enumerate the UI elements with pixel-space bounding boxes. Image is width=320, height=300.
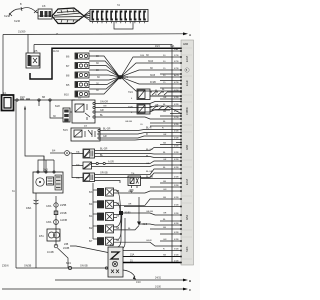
svg-text:4/2B: 4/2B	[174, 159, 179, 161]
svg-text:4/2B: 4/2B	[174, 97, 179, 99]
svg-text:4/2B: 4/2B	[174, 223, 179, 225]
wire diagonal into cluster	[70, 246, 108, 253]
relay pair 8/1	[89, 213, 114, 221]
svg-text:BL-GR: BL-GR	[146, 149, 153, 151]
svg-text:BL-R: BL-R	[146, 127, 152, 130]
svg-text:GR: GR	[155, 105, 159, 107]
svg-text:GN-R: GN-R	[146, 240, 152, 242]
thick feed bus 30	[30, 48, 181, 79]
wire bottom feed 31/269 to cluster	[2, 262, 108, 270]
relay pair 8/7b	[89, 237, 114, 245]
svg-text:4/7B: 4/7B	[174, 68, 179, 70]
cable marker 4/BA	[26, 193, 39, 268]
svg-text:4/52: 4/52	[185, 214, 189, 220]
svg-text:30-R: 30-R	[148, 60, 153, 63]
connector 6/28	[53, 105, 70, 122]
relay pair 8/3	[89, 188, 114, 196]
svg-text:GN-OR: GN-OR	[100, 101, 108, 104]
svg-text:GR: GR	[128, 204, 132, 206]
svg-text:30-B: 30-B	[150, 74, 155, 77]
wire mid label column	[162, 55, 167, 257]
wire 7/9 outputs with connectors	[92, 161, 182, 167]
svg-text:4/2B: 4/2B	[174, 124, 179, 126]
wire strip pin pips	[180, 48, 182, 264]
relay 7/9	[76, 162, 92, 169]
svg-text:GR: GR	[163, 97, 167, 99]
svg-text:GR: GR	[163, 134, 167, 136]
svg-text:4/BA: 4/BA	[26, 207, 32, 210]
svg-text:30A: 30A	[174, 48, 178, 51]
svg-text:6B/1: 6B/1	[66, 262, 72, 265]
harness bundle 8A	[38, 8, 84, 24]
svg-text:GN/3B: GN/3B	[24, 265, 32, 268]
svg-text:GR-SB: GR-SB	[125, 121, 132, 123]
svg-text:4/2B: 4/2B	[174, 232, 179, 234]
svg-text:5/2B: 5/2B	[174, 249, 179, 251]
cluster 5/1	[105, 244, 123, 277]
svg-text:J/100: J/100	[155, 286, 162, 289]
wire U-bracket under connector row	[114, 22, 133, 29]
svg-text:J/10: J/10	[136, 281, 141, 284]
fuse 8/10	[64, 91, 89, 97]
svg-text:4/2B: 4/2B	[174, 138, 179, 140]
svg-text:4/2B: 4/2B	[174, 167, 179, 169]
pump unit 3/43	[33, 169, 63, 194]
wire to A / node 31/269	[3, 31, 192, 38]
svg-text:ECM: ECM	[185, 179, 189, 185]
svg-text:8/10: 8/10	[64, 94, 69, 97]
svg-text:30A: 30A	[170, 45, 175, 48]
box 7/4	[128, 173, 181, 193]
svg-text:R-SB: R-SB	[150, 81, 156, 84]
connector row 7/A	[90, 4, 148, 23]
wire relay outputs to junction	[114, 190, 122, 239]
wire cluster outputs	[123, 251, 181, 285]
svg-text:A1/NB: A1/NB	[60, 219, 67, 222]
svg-text:6B: 6B	[42, 96, 45, 99]
svg-text:4/2B: 4/2B	[174, 255, 179, 257]
connector strip panel	[181, 40, 194, 265]
wire connector drop to 6/28	[50, 100, 63, 118]
svg-text:GN: GN	[128, 191, 132, 193]
svg-text:5/15: 5/15	[63, 129, 68, 132]
svg-text:6/28: 6/28	[55, 105, 60, 108]
svg-text:SB: SB	[116, 202, 120, 205]
ground strap 31/48 arcs	[4, 3, 37, 23]
sensor chain circles	[46, 196, 67, 246]
svg-text:EGR: EGR	[185, 80, 189, 86]
svg-text:Z30/N: Z30/N	[2, 265, 9, 268]
wire left drop from A-line	[2, 35, 4, 96]
fan wires from bundle to connector row	[84, 11, 90, 21]
svg-text:GR: GR	[163, 213, 167, 215]
svg-text:4/2B: 4/2B	[174, 261, 179, 263]
fuse 8/7	[66, 63, 89, 69]
svg-text:7A: 7A	[117, 4, 120, 7]
svg-text:4/2B: 4/2B	[174, 104, 179, 106]
svg-text:GR: GR	[163, 159, 167, 161]
relay 7/8	[76, 149, 95, 158]
wire knot fan to right rows	[122, 57, 182, 91]
svg-text:A/7B: A/7B	[174, 74, 179, 77]
svg-text:16/2: 16/2	[20, 96, 25, 99]
svg-text:A GR: A GR	[108, 161, 114, 164]
connector 7/8	[36, 5, 52, 19]
svg-text:4/2B: 4/2B	[174, 131, 179, 133]
svg-text:BL-SB: BL-SB	[146, 176, 153, 179]
svg-text:GN-SB: GN-SB	[80, 265, 88, 268]
wire battery ground drop	[15, 100, 17, 268]
wire pump pins up	[38, 156, 54, 171]
junction 31/53	[119, 211, 131, 215]
relay 5/15	[63, 125, 100, 141]
wire relay outputs to right	[114, 190, 182, 246]
svg-text:5/7B: 5/7B	[174, 117, 179, 119]
svg-text:GN: GN	[163, 189, 167, 191]
svg-text:6/7B: 6/7B	[174, 61, 179, 63]
svg-text:GR: GR	[146, 163, 150, 165]
wire speckle labels mid columns	[103, 55, 159, 242]
svg-text:4/96: 4/96	[183, 42, 189, 46]
svg-text:CMBD: CMBD	[185, 107, 189, 115]
fuse 8/8	[66, 72, 89, 78]
wire B line	[55, 277, 192, 284]
switch unit 7/25	[128, 104, 181, 114]
svg-text:7/24: 7/24	[128, 91, 133, 94]
svg-text:5/2B: 5/2B	[174, 152, 179, 154]
svg-text:GN: GN	[163, 239, 167, 241]
svg-text:31/269: 31/269	[18, 31, 26, 34]
svg-text:BL-SB: BL-SB	[146, 171, 153, 173]
svg-text:7/25: 7/25	[128, 106, 133, 109]
svg-text:SB: SB	[116, 215, 120, 218]
svg-text:4/51: 4/51	[39, 235, 44, 238]
wire inner box top	[34, 45, 172, 263]
wire C line	[2, 286, 192, 293]
svg-text:2/18B: 2/18B	[63, 247, 70, 250]
ground circle 6/46	[50, 150, 72, 156]
svg-text:5/2B: 5/2B	[174, 90, 179, 92]
fuse 8/5	[66, 82, 89, 88]
svg-text:SRS: SRS	[185, 246, 189, 252]
battery 1/1	[2, 92, 14, 111]
svg-text:4/2B: 4/2B	[174, 205, 179, 207]
svg-text:C/8A: C/8A	[46, 205, 52, 208]
svg-text:31/5: 31/5	[143, 223, 148, 226]
svg-text:4/2B: 4/2B	[174, 177, 179, 179]
svg-text:BL-GR: BL-GR	[100, 148, 108, 151]
relay 7/7	[70, 97, 95, 123]
svg-text:C/8A: C/8A	[46, 221, 52, 224]
wire 7/6 outputs	[95, 169, 182, 183]
svg-text:4/2B: 4/2B	[174, 146, 179, 148]
bundle knot D/Y1	[118, 75, 128, 79]
wire riser with arrow	[24, 106, 44, 173]
svg-text:4/2B: 4/2B	[174, 197, 179, 199]
svg-text:SB: SB	[116, 239, 120, 242]
relay pair 8/4	[89, 200, 114, 208]
svg-text:16/4: 16/4	[155, 45, 160, 48]
junction 31/5 triangle	[137, 197, 148, 226]
svg-text:4/7B: 4/7B	[174, 82, 179, 84]
wire relay column left bus	[92, 183, 94, 239]
svg-text:4/7B: 4/7B	[174, 111, 179, 113]
svg-text:BL-GR: BL-GR	[103, 128, 111, 131]
svg-text:SB: SB	[116, 190, 120, 193]
svg-text:31/48: 31/48	[4, 15, 11, 18]
svg-text:ECM: ECM	[185, 56, 189, 62]
fuse 8/6	[66, 53, 89, 59]
svg-text:5/7B: 5/7B	[174, 55, 179, 57]
relay pair 8/2	[89, 225, 114, 233]
wire battery feed with connectors	[14, 96, 76, 101]
svg-text:24/31: 24/31	[155, 277, 162, 280]
svg-text:R: R	[146, 133, 148, 136]
svg-text:2/4SB: 2/4SB	[60, 212, 67, 215]
svg-text:GR-SB: GR-SB	[100, 172, 108, 175]
svg-text:GN: GN	[103, 106, 107, 108]
svg-text:5/2B: 5/2B	[174, 185, 179, 187]
svg-text:1C/4B: 1C/4B	[47, 251, 54, 254]
wire drop to ignition switch	[27, 35, 29, 54]
twin unit 4/51	[39, 229, 60, 241]
wire chain to bottom	[47, 244, 70, 268]
wire bus to relays	[72, 153, 83, 178]
svg-text:GR: GR	[103, 135, 107, 138]
wire strip feeder rows	[89, 51, 181, 241]
svg-text:15A: 15A	[130, 254, 135, 257]
wire relay 7/7 outputs	[95, 102, 181, 120]
svg-text:5/2B: 5/2B	[174, 213, 179, 215]
svg-text:24/5B: 24/5B	[60, 204, 67, 207]
svg-text:GR-SB: GR-SB	[146, 211, 153, 213]
relay 7/6	[76, 173, 95, 182]
svg-text:4/96: 4/96	[185, 144, 189, 150]
svg-text:GR: GR	[100, 109, 104, 112]
wire fuse outputs to bundle knot	[89, 56, 119, 94]
switch unit 7/24	[128, 89, 181, 100]
svg-text:SB: SB	[116, 227, 120, 230]
svg-text:11/34: 11/34	[53, 50, 59, 53]
wire 7/8 outputs	[95, 148, 182, 158]
svg-text:31/46: 31/46	[14, 20, 21, 23]
svg-text:4/2B: 4/2B	[174, 239, 179, 241]
wire verticals to cluster	[108, 215, 125, 249]
wire 5/15 outputs fan	[100, 130, 181, 143]
svg-text:2/IB: 2/IB	[64, 243, 69, 246]
strip edge pin labels	[174, 48, 179, 263]
ignition switch 2/25	[26, 45, 40, 69]
